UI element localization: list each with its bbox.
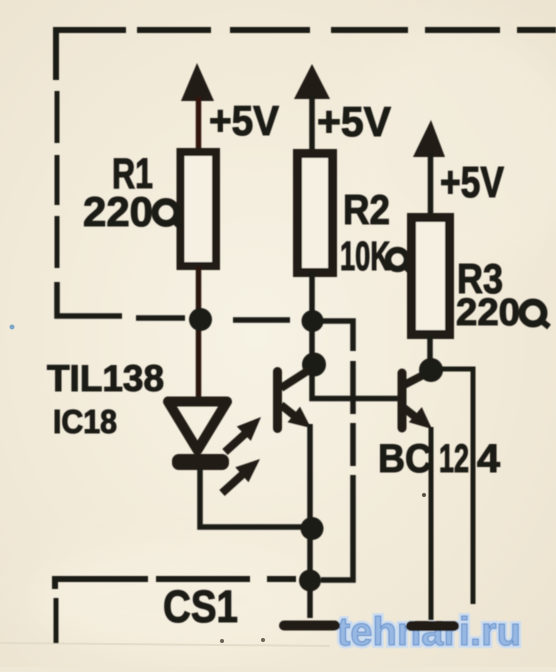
node B junction below R2 bbox=[302, 310, 324, 332]
wire arrow to R3 bbox=[428, 153, 434, 215]
dashed enclosure: left-bottom corner at wire level bbox=[57, 282, 122, 316]
svg-text:BC: BC bbox=[378, 437, 432, 481]
omega glyph (R1 value) bbox=[155, 202, 181, 228]
phototransistor collector lead bbox=[281, 370, 309, 388]
power arrow +5V (R1) bbox=[181, 63, 214, 101]
watermark tehnari.ru bbox=[337, 610, 521, 654]
node E junction on dashed boundary bbox=[299, 570, 321, 592]
svg-text:220: 220 bbox=[83, 188, 153, 235]
node A junction below R1 bbox=[189, 308, 212, 331]
svg-text:R2: R2 bbox=[343, 186, 390, 233]
wire BC124 emitter to ground bbox=[429, 427, 434, 620]
svg-text:+5V: +5V bbox=[317, 98, 391, 145]
dashed enclosure: right-bottom corner to node E bbox=[321, 475, 353, 580]
dashed enclosure: bottom-left corner bbox=[55, 579, 148, 589]
ground symbol left bbox=[279, 621, 340, 631]
LED cathode bar bbox=[172, 454, 229, 470]
wire phototransistor emitter to ground bbox=[307, 424, 313, 618]
dashed enclosure: left line dashes bbox=[55, 91, 60, 268]
BC124 emitter lead bbox=[404, 408, 418, 419]
dashed enclosure: lower-left vertical dash bbox=[54, 598, 59, 643]
svg-text:+5V: +5V bbox=[209, 97, 279, 144]
dashed enclosure: bottom line dashes bbox=[156, 576, 296, 582]
svg-text:12: 12 bbox=[439, 437, 469, 481]
LED of optocoupler IC18 bbox=[168, 402, 227, 451]
omega glyph (R3 value) bbox=[522, 302, 549, 327]
resistor R1 bbox=[181, 152, 217, 266]
node C phototransistor collector junction bbox=[302, 353, 326, 377]
dashed enclosure: right line dashes bbox=[350, 361, 356, 466]
transistor Q1 BC124 base bar bbox=[398, 373, 407, 428]
phototransistor emitter lead bbox=[281, 405, 296, 417]
dashed enclosure: top-left corner bbox=[56, 30, 126, 80]
svg-text:CS1: CS1 bbox=[163, 581, 238, 632]
svg-text:TIL138: TIL138 bbox=[47, 358, 164, 399]
light emission arrow upper bbox=[225, 417, 261, 452]
svg-text:4: 4 bbox=[477, 437, 501, 481]
resistor R3 bbox=[412, 218, 450, 335]
resistor R2 bbox=[298, 154, 333, 273]
phototransistor emitter arrowhead bbox=[288, 407, 311, 428]
ground symbol right bbox=[406, 621, 459, 631]
svg-text:+5V: +5V bbox=[440, 158, 505, 207]
svg-text:220: 220 bbox=[456, 292, 520, 334]
wire R3 to node F bbox=[427, 335, 433, 368]
dashed segment to node A bbox=[136, 315, 185, 321]
dashed enclosure: right top corner from node B bbox=[313, 321, 353, 351]
BC124 collector lead bbox=[404, 372, 429, 385]
node F junction BC124 collector bbox=[419, 358, 443, 382]
svg-text:tehnari.ru: tehnari.ru bbox=[337, 610, 521, 654]
wire R1 to LED anode bbox=[196, 266, 202, 400]
phototransistor base bar bbox=[273, 372, 282, 429]
wire arrow to R1 bbox=[196, 97, 202, 150]
light emission arrow lower bbox=[222, 459, 260, 493]
node D junction LED cathode / emitter wire bbox=[301, 517, 324, 540]
wire R2 bottom to BC124 base bbox=[312, 272, 398, 399]
wire node F to output bbox=[433, 369, 473, 604]
svg-text:10K: 10K bbox=[340, 233, 390, 279]
wire LED cathode to node D bbox=[200, 468, 306, 527]
power arrow +5V (R3) bbox=[413, 120, 445, 157]
omega glyph (R2 value) bbox=[388, 250, 410, 272]
dashed segment between node A and node B bbox=[233, 317, 290, 323]
wire arrow to R2 bbox=[309, 95, 315, 151]
power arrow +5V (R2) bbox=[294, 64, 330, 99]
svg-text:IC18: IC18 bbox=[53, 403, 117, 440]
dashed enclosure: top line dashes bbox=[137, 27, 556, 33]
BC124 emitter arrowhead bbox=[409, 407, 432, 429]
